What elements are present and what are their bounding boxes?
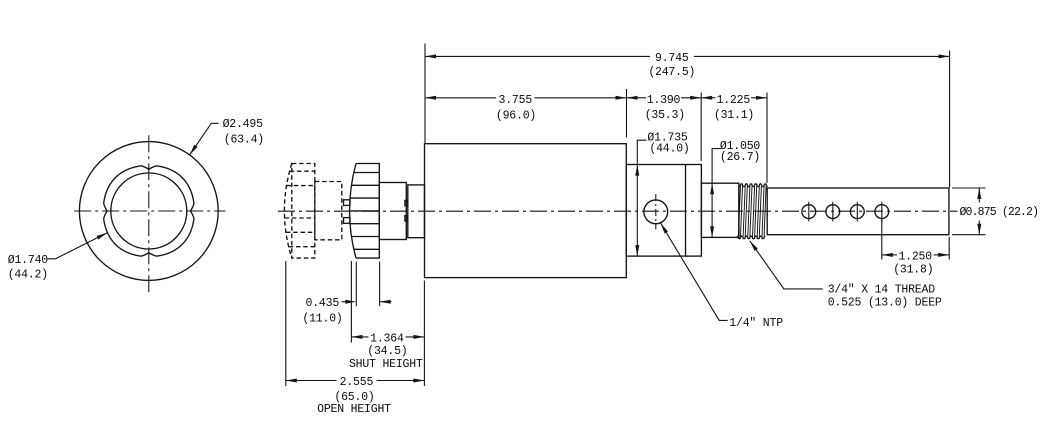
shaft cross hole [826,205,840,219]
knob stem [379,183,406,240]
dimension 1.364 shut height [351,336,368,338]
ext line shaft top right [952,187,986,189]
svg-text:(96.0): (96.0) [496,110,536,123]
dimension 9.745 overall [425,55,650,57]
stem retaining tabs [405,200,408,205]
end view vertical centerline [148,135,150,295]
svg-text:(247.5): (247.5) [648,66,695,79]
phantom knob knurl line [286,231,315,233]
retaining tabs left of knob [344,200,351,206]
svg-text:0.525 (13.0) DEEP: 0.525 (13.0) DEEP [828,296,942,309]
ext line body left face [424,44,426,144]
knob (shut position) outline [356,164,379,259]
svg-text:1.364: 1.364 [370,332,404,345]
phantom knob knurl line [289,246,315,248]
port hole vertical centerline [655,194,657,230]
main cylinder body [425,144,627,278]
dimension 1.390 block length [627,97,647,99]
thread flank [762,184,764,239]
outlet shaft (dia 0.875) [767,188,949,235]
svg-text:Ø2.495: Ø2.495 [223,118,264,131]
svg-text:3/4″ X 14 THREAD: 3/4″ X 14 THREAD [828,283,936,296]
knob knurl line [350,210,380,212]
end view scalloped knurl profile [104,166,194,256]
leader for diameter 2.495 [190,123,219,155]
ext line shaft end top [949,51,951,188]
neck step (dia 1.050) [701,183,739,237]
thread flank [757,184,759,239]
thread start face [738,185,740,239]
svg-text:1/4″ NTP: 1/4″ NTP [729,317,783,330]
hole vertical tick [832,202,834,222]
thread flank [764,184,766,239]
leader arrowhead thread [750,241,758,251]
knob domed face arc [350,164,356,259]
bonnet step [408,185,425,238]
thread flank [738,184,740,239]
thread flank [752,184,754,239]
leader arrowhead 2.495 [190,145,198,155]
shaft cross hole [875,205,889,219]
knob knurl line [354,172,379,174]
knob knurl line [350,197,379,199]
thread flank [748,184,750,239]
knob knurl line [352,236,380,238]
ext line thread end [766,93,768,184]
svg-text:OPEN HEIGHT: OPEN HEIGHT [317,403,391,416]
dimension 1.225 thread length [701,97,715,99]
dimension dia 1.050 neck [712,149,721,238]
hole vertical tick [881,202,883,222]
dimension 3.755 body length [425,97,496,99]
svg-text:(31.1): (31.1) [714,109,754,122]
svg-text:1.225: 1.225 [717,94,751,107]
svg-text:2.555: 2.555 [340,376,374,389]
phantom knob (open position) outline [292,164,315,259]
svg-text:0.435: 0.435 [306,297,340,310]
dimension 0.435 knob width [342,301,346,303]
leader arrowhead NTP [661,223,668,233]
ext line shaft bottom right [952,234,986,236]
dimension dia 1.735 block [637,140,646,256]
thread flank [740,184,742,239]
thread flank [743,184,745,239]
ext line shaft end bottom [948,237,950,260]
svg-text:3.755: 3.755 [499,94,533,107]
leader for diameter 1.740 [48,233,108,259]
thread flank [750,184,752,239]
knob knurl line [352,184,380,186]
hole vertical tick [808,202,810,222]
ext line last hole [881,219,883,260]
svg-text:(11.0): (11.0) [302,312,342,325]
svg-text:1.250: 1.250 [898,250,932,263]
end view horizontal centerline [74,210,225,212]
svg-text:(31.8): (31.8) [893,264,933,277]
phantom stem outline [315,182,342,240]
shaft cross hole [850,205,864,219]
ext line knob left [355,262,357,307]
ext line knob right [379,262,381,307]
1/4 NTP port hole [644,200,668,224]
svg-text:Ø1.740: Ø1.740 [8,254,49,267]
svg-text:(63.4): (63.4) [224,134,264,147]
svg-text:1.390: 1.390 [647,94,681,107]
svg-text:(34.5): (34.5) [367,345,407,358]
phantom knob knurl line [287,185,315,187]
ext line knob face [350,261,352,343]
leader 3/4-14 thread note [750,241,823,289]
knob knurl line [350,223,379,225]
thread flank [759,184,761,239]
ext line block right face [700,93,702,162]
thread flank [755,184,757,239]
svg-text:Ø0.875 (22.2): Ø0.875 (22.2) [960,206,1039,219]
leader arrowhead 1.740 [97,233,108,240]
svg-text:(35.3): (35.3) [645,109,685,122]
ext line phantom knob face [285,261,287,386]
svg-text:(44.0): (44.0) [649,143,689,156]
leader 1/4 NTP [661,223,728,320]
end view outer circle (knob OD 2.495) [79,142,218,281]
svg-text:SHUT HEIGHT: SHUT HEIGHT [349,358,423,371]
ext line body face bottom [423,281,425,387]
end view inner circle (ID 1.740) [111,173,187,249]
main horizontal centerline [278,210,958,212]
svg-text:9.745: 9.745 [655,52,689,65]
threaded section 3/4-14 [739,184,767,187]
ext line body right face [626,89,628,138]
phantom knob domed face arc [284,164,291,259]
phantom knob knurl line [290,170,315,172]
hole vertical tick [856,202,858,222]
dimension 2.555 open height [286,380,337,382]
phantom knob knurl line [285,217,315,219]
hex valve block [626,165,701,257]
shaft cross hole [802,205,816,219]
knob knurl line [354,248,380,250]
svg-text:(26.7): (26.7) [720,151,760,164]
valve block face line [685,165,687,257]
thread flank [745,184,747,239]
svg-text:(44.2): (44.2) [8,269,48,282]
